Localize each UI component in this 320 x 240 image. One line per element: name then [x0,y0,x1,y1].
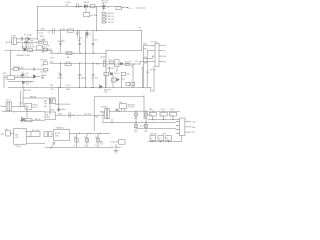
svg-text:CON1: CON1 [11,35,16,37]
svg-text:1u: 1u [150,114,152,116]
svg-text:FR107: FR107 [84,2,90,4]
svg-text:+5V: +5V [192,132,196,134]
transistor Q2 [22,72,24,78]
svg-text:C80 u: C80 u [149,109,154,111]
wire t3 left stub [3,105,7,107]
capacitor box CA5 [170,112,177,116]
svg-text:C: C [13,113,15,115]
shunt CB5 [145,122,147,130]
node rc1 [152,119,153,120]
svg-text:D14: D14 [135,61,138,63]
capacitor column CC2 [79,31,81,54]
resistor R1 [90,5,95,8]
svg-text:D3: D3 [89,34,91,36]
capacitor C40 [69,113,71,118]
wire q4 col [26,106,28,118]
svg-text:C27: C27 [104,92,107,94]
wire q3 right [36,76,40,78]
svg-text:NTC 5D-9: NTC 5D-9 [32,130,40,132]
svg-text:C28: C28 [146,72,149,74]
wire t5 left stub [100,112,105,123]
svg-text:R61: R61 [20,103,23,105]
node sb1 [26,106,27,107]
svg-text:R60 2M: R60 2M [30,97,37,99]
ground arrow [50,142,54,149]
svg-text:C18: C18 [51,89,54,91]
wire right vertical x96.7 [96,6,98,30]
resistor R38 [125,63,129,65]
svg-text:GBU606 o2: GBU606 o2 [56,127,65,129]
svg-text:C70: C70 [100,144,103,146]
node r2b [79,63,80,64]
svg-text:R12 2k2: R12 2k2 [41,60,47,62]
shunt cap CB2 [86,133,88,147]
cn3 left pin marks [176,122,180,134]
wire branch at x86 [85,8,87,13]
transformer T3 [6,102,12,110]
svg-text:R33: R33 [144,43,147,45]
wire pwm stub2 to ic [147,50,155,87]
svg-text:C81 u: C81 u [161,109,166,111]
diode D4 [29,38,31,40]
capacitor C3 below rail [76,31,78,37]
svg-text:R62: R62 [95,117,98,119]
wire t1 out [15,76,34,78]
node rc2 [163,119,164,120]
resistor R3 [116,7,121,10]
node ob2 [135,122,136,123]
block T4 [14,129,27,145]
node re2 [160,141,161,142]
wire lower channel [11,68,44,70]
svg-text:GND: GND [192,127,197,129]
svg-text:SCK 054: SCK 054 [28,46,35,48]
diode D8 [110,72,112,75]
capacitor box CB8 [158,136,164,141]
svg-text:C: C [84,41,86,43]
capacitor box CB9 [166,136,171,141]
wire t4 out rows [26,132,31,137]
capacitor column CC4 [92,31,94,54]
svg-text:GND: GND [66,89,71,91]
node re1 [151,141,152,142]
svg-text:+310V: +310V [40,29,46,31]
shunt CA2 [145,111,147,122]
resistor R7 on rail1 [66,52,72,55]
wire pwm verticals [106,64,143,88]
svg-text:o1: o1 [164,45,166,47]
svg-text:C63: C63 [144,118,147,120]
node j3 on mid rail [37,30,38,31]
resistor R40 [104,72,109,76]
svg-text:1u: 1u [170,114,172,116]
svg-text:R62 1k: R62 1k [32,107,38,109]
svg-text:1000u: 1000u [58,41,63,43]
wire ac inlet stub [9,41,12,43]
svg-text:C41 470u: C41 470u [84,113,91,115]
wire out rail 2 [50,62,106,64]
capacitor C2 on rail [52,29,54,34]
svg-text:2k2 1n: 2k2 1n [102,3,107,5]
optocoupler U6 [49,99,55,104]
svg-text:F1 3.15A: F1 3.15A [24,34,32,37]
node j5 [86,30,87,31]
svg-text:TL431 R81: TL431 R81 [110,142,118,144]
wire standby cols [21,88,23,107]
node re3 [168,141,169,142]
snubber column S4 [44,68,48,71]
resistor R41 [121,72,125,75]
svg-text:D21: D21 [50,61,53,63]
node br2 [79,87,80,88]
rectifier D50 [120,104,127,109]
resistor R43 [126,82,130,85]
svg-text:AC: AC [6,41,9,44]
diode D11 [25,41,29,43]
diode D1 [84,5,87,8]
wire pwm stub3 to ic [143,56,155,59]
diode D7 [120,62,122,65]
node r1a [58,53,59,54]
node u6b [58,87,59,88]
node j1 [80,6,81,7]
resistor R82 [119,140,126,145]
node r1c [80,53,81,54]
resistor row RA2 [102,15,105,17]
wire ic ground leg [151,66,154,91]
wire standby out rail [56,114,104,116]
shunt cap CB1 [76,133,78,147]
wire dash-dot to corner [136,7,146,9]
wire pwm left edge [105,51,107,88]
wire pwm left stub [100,56,106,58]
node br1 [60,87,61,88]
svg-text:R34: R34 [144,49,147,51]
node bm2 [89,133,90,134]
cn3 right pin 1 [185,121,191,123]
wire cluster stubs [110,66,118,72]
resistor R8 on rail2 [65,63,71,65]
resistor R65 [44,132,47,137]
svg-text:R71 C60: R71 C60 [128,107,135,109]
wire ca stubs [153,111,173,120]
node r1d [85,53,86,54]
svg-text:R13 2k2: R13 2k2 [41,72,47,74]
wire bc vertical [115,144,117,150]
svg-text:R29: R29 [103,60,106,62]
svg-text:C31: C31 [41,78,44,80]
svg-text:1u: 1u [74,145,76,147]
svg-text:C52: C52 [95,137,98,139]
svg-text:C51: C51 [84,137,87,139]
node j6 [96,30,97,31]
svg-text:2u: 2u [159,138,161,140]
wire bl bottom [26,142,45,144]
resistor R31 [109,61,113,63]
connector CN1 box [12,38,17,45]
capacitor CX1 [22,37,23,40]
node u6a [58,104,59,105]
svg-text:R14: R14 [51,57,54,59]
node bm1 [79,133,80,134]
svg-text:CN2: CN2 [1,134,4,136]
svg-text:16V: 16V [78,40,82,42]
resistor row RA1 [102,12,105,14]
svg-text:C26: C26 [121,78,124,80]
node lc1 [18,69,19,70]
resistor R42 [112,78,117,82]
wire cb stubs [153,141,169,142]
svg-text:D22: D22 [50,85,53,87]
svg-text:C62: C62 [134,118,137,120]
svg-text:C6 330u: C6 330u [59,29,65,31]
svg-text:KA7500B / TL494: KA7500B / TL494 [17,54,30,57]
wire bus C [148,119,180,121]
cn3 right pin 2 [185,126,191,128]
capacitor CY stubs [23,44,27,49]
wire out bus B [103,119,176,123]
svg-text:IC3 7912: IC3 7912 [151,42,158,44]
node s1 [48,45,49,46]
wire top rail [37,7,128,8]
svg-text:B+ · — ·: B+ · — · [129,8,136,10]
relay K1 [31,132,40,137]
svg-text:R53 C33: R53 C33 [24,90,31,92]
svg-text:Q1: Q1 [22,47,24,49]
svg-text:2u: 2u [167,138,169,140]
diode D2 vertical [102,3,105,10]
svg-text:C32: C32 [26,84,29,86]
transistor Q1 [24,48,26,52]
wire out bus A [109,110,180,112]
svg-text:1u: 1u [95,145,97,147]
box discharge [37,46,43,50]
svg-text:C82 u: C82 u [170,109,175,111]
svg-text:BD 2A: BD 2A [55,132,61,135]
svg-text:C5 o1: C5 o1 [39,32,44,34]
svg-text:R64 1k: R64 1k [35,119,41,121]
diode D6 on rail [100,85,103,88]
wire cn2 link [11,132,14,134]
node br3 [85,87,86,88]
svg-text:C22: C22 [144,57,147,59]
diode D13 [58,109,60,111]
resistor R4 [68,29,74,32]
wire base row y50 [5,49,52,51]
node br6 [91,87,92,88]
svg-text:D50: D50 [120,102,123,104]
node r2a [60,63,61,64]
thermistor NTC1 [25,44,27,49]
resistor R2 [84,12,90,16]
resistor R21 on wire [14,68,19,71]
svg-text:C64: C64 [134,131,137,133]
node br5 [100,87,101,88]
node oa3 [145,111,146,112]
resistor R66 [49,132,52,137]
node pwm1 [133,63,134,64]
resistor R29 [103,62,105,67]
wire corner down [141,31,143,51]
block U5 [53,129,69,140]
svg-text:R39: R39 [144,62,147,64]
ic U1 right pins [159,45,164,61]
svg-text:R83 C71 R84: R83 C71 R84 [110,147,120,149]
svg-text:2200u: 2200u [58,78,63,80]
mosfet Q4 [21,117,25,122]
connector CN2 [6,131,11,137]
node j4 [77,30,78,31]
node j2 [127,7,128,8]
wire left column [10,50,12,75]
resistor RX1 [38,41,42,43]
wire bus E [148,136,181,142]
resistor R5 [28,49,33,52]
wire standby top row [23,97,50,99]
node sb2 [73,115,74,116]
transistor Q3 [33,74,36,78]
resistor row RA3 [102,18,105,20]
svg-text:C15: C15 [41,65,44,67]
svg-text:C50: C50 [74,137,77,139]
svg-text:R9: R9 [139,27,141,29]
capacitor column CC1 [59,31,61,54]
svg-text:C11 1000u: C11 1000u [77,78,85,80]
wire bm bottom bus [45,146,110,148]
svg-text:400V: 400V [40,36,45,38]
svg-text:R11: R11 [41,52,44,54]
svg-text:1kV: 1kV [66,4,70,6]
svg-text:R67: R67 [44,106,47,108]
svg-text:C29 10n: C29 10n [149,69,155,71]
wire bus D [137,128,176,130]
svg-text:T 3.15A: T 3.15A [15,145,22,148]
svg-text:L4 3u3: L4 3u3 [65,61,70,63]
svg-text:R88: R88 [163,133,166,135]
regulator block U4 [45,112,56,120]
node r2c [92,63,93,64]
svg-text:+5Vsb: +5Vsb [57,113,62,115]
cn3 right pin 3 [185,131,191,133]
wire mid rail [37,30,141,32]
node rc3 [172,119,173,120]
wire base row2 [8,81,34,83]
svg-text:R 2W 0.15: R 2W 0.15 [106,16,114,18]
shunt CA1 [135,111,137,122]
capacitor C1 [75,3,80,7]
svg-text:L5 10u: L5 10u [65,85,70,87]
wire pwm stub1 to ic [144,45,156,87]
node ac1 [37,38,38,39]
capacitor column CC6 [79,63,81,87]
svg-text:L2: L2 [107,6,109,8]
wire long bottom rail [8,87,151,89]
svg-text:+12V: +12V [192,122,197,124]
diode D3 below rail [86,31,89,39]
svg-text:C10: C10 [58,73,61,75]
node ob3 [145,122,146,123]
capacitor C4 [33,68,34,71]
svg-text:R30: R30 [96,64,99,66]
svg-text:3A: 3A [67,56,70,59]
transformer T5 [105,109,110,119]
svg-text:1u: 1u [84,145,86,147]
wire pwm row [106,63,140,65]
svg-text:R68 1k: R68 1k [61,109,67,111]
wire fb row y120 [20,119,45,121]
svg-text:C7: C7 [48,32,50,34]
svg-text:C 220: C 220 [93,40,98,42]
svg-text:C19: C19 [3,75,6,77]
shunt cap CB3 [97,133,99,147]
svg-text:C83 C84: C83 C84 [150,133,157,135]
wire out rail 1 [50,52,106,54]
shunt CB4 [135,122,137,130]
ground gnd2 [114,151,118,153]
optocoupler U3 [25,103,32,109]
wire left col2 [4,77,7,87]
node oa1 [119,111,120,112]
connector CN3 [180,118,185,135]
resistor R44 [131,82,135,85]
wire d50 stubs [121,109,125,112]
ic U2 small [114,60,119,67]
svg-text:D20: D20 [50,51,53,53]
svg-text:R 2W 0.15: R 2W 0.15 [106,22,114,24]
diode D10 [23,81,26,84]
node oa2 [135,111,136,112]
svg-text:R35: R35 [126,74,129,76]
wire drop to standby [22,84,24,88]
node r1b [74,53,75,54]
node sbb1 [27,111,28,112]
node ob1 [111,122,112,123]
wire sb right col [49,98,51,115]
wire ac top line [17,38,38,40]
node r1e [93,53,94,54]
fuse F1 box [26,38,28,41]
capacitor column CC7 [85,53,87,87]
node br4 [93,87,94,88]
resistor R63 [25,119,32,122]
svg-text:GBU: GBU [55,136,59,138]
svg-text:o3: o3 [164,56,166,58]
capacitor column CC5 [59,63,61,87]
ic U1 [155,43,159,66]
svg-text:RV1: RV1 [30,41,33,43]
capacitor column CC8 [92,63,94,87]
svg-text:C65: C65 [144,131,147,133]
capacitor C61 [116,109,119,112]
svg-text:R 2W 0.15: R 2W 0.15 [106,13,114,15]
capacitor box CA3 [149,112,156,116]
svg-text:2u: 2u [151,138,153,140]
svg-text:o4: o4 [164,61,166,63]
wire standby bus [3,110,46,112]
svg-text:Q5 C945: Q5 C945 [107,68,114,70]
diode D9 [117,78,120,81]
wire pwm stub4 to ic [140,61,155,64]
svg-text:TL431: TL431 [50,110,55,112]
module box standby converter [94,95,144,130]
svg-text:FILT: FILT [15,137,18,139]
capacitor box CA4 [160,112,167,116]
svg-text:R10: R10 [42,39,45,41]
capacitor column CC3 [85,34,87,53]
wire bm bus [70,132,110,134]
node bm3 [100,133,101,134]
wire ac bottom line [17,41,39,43]
